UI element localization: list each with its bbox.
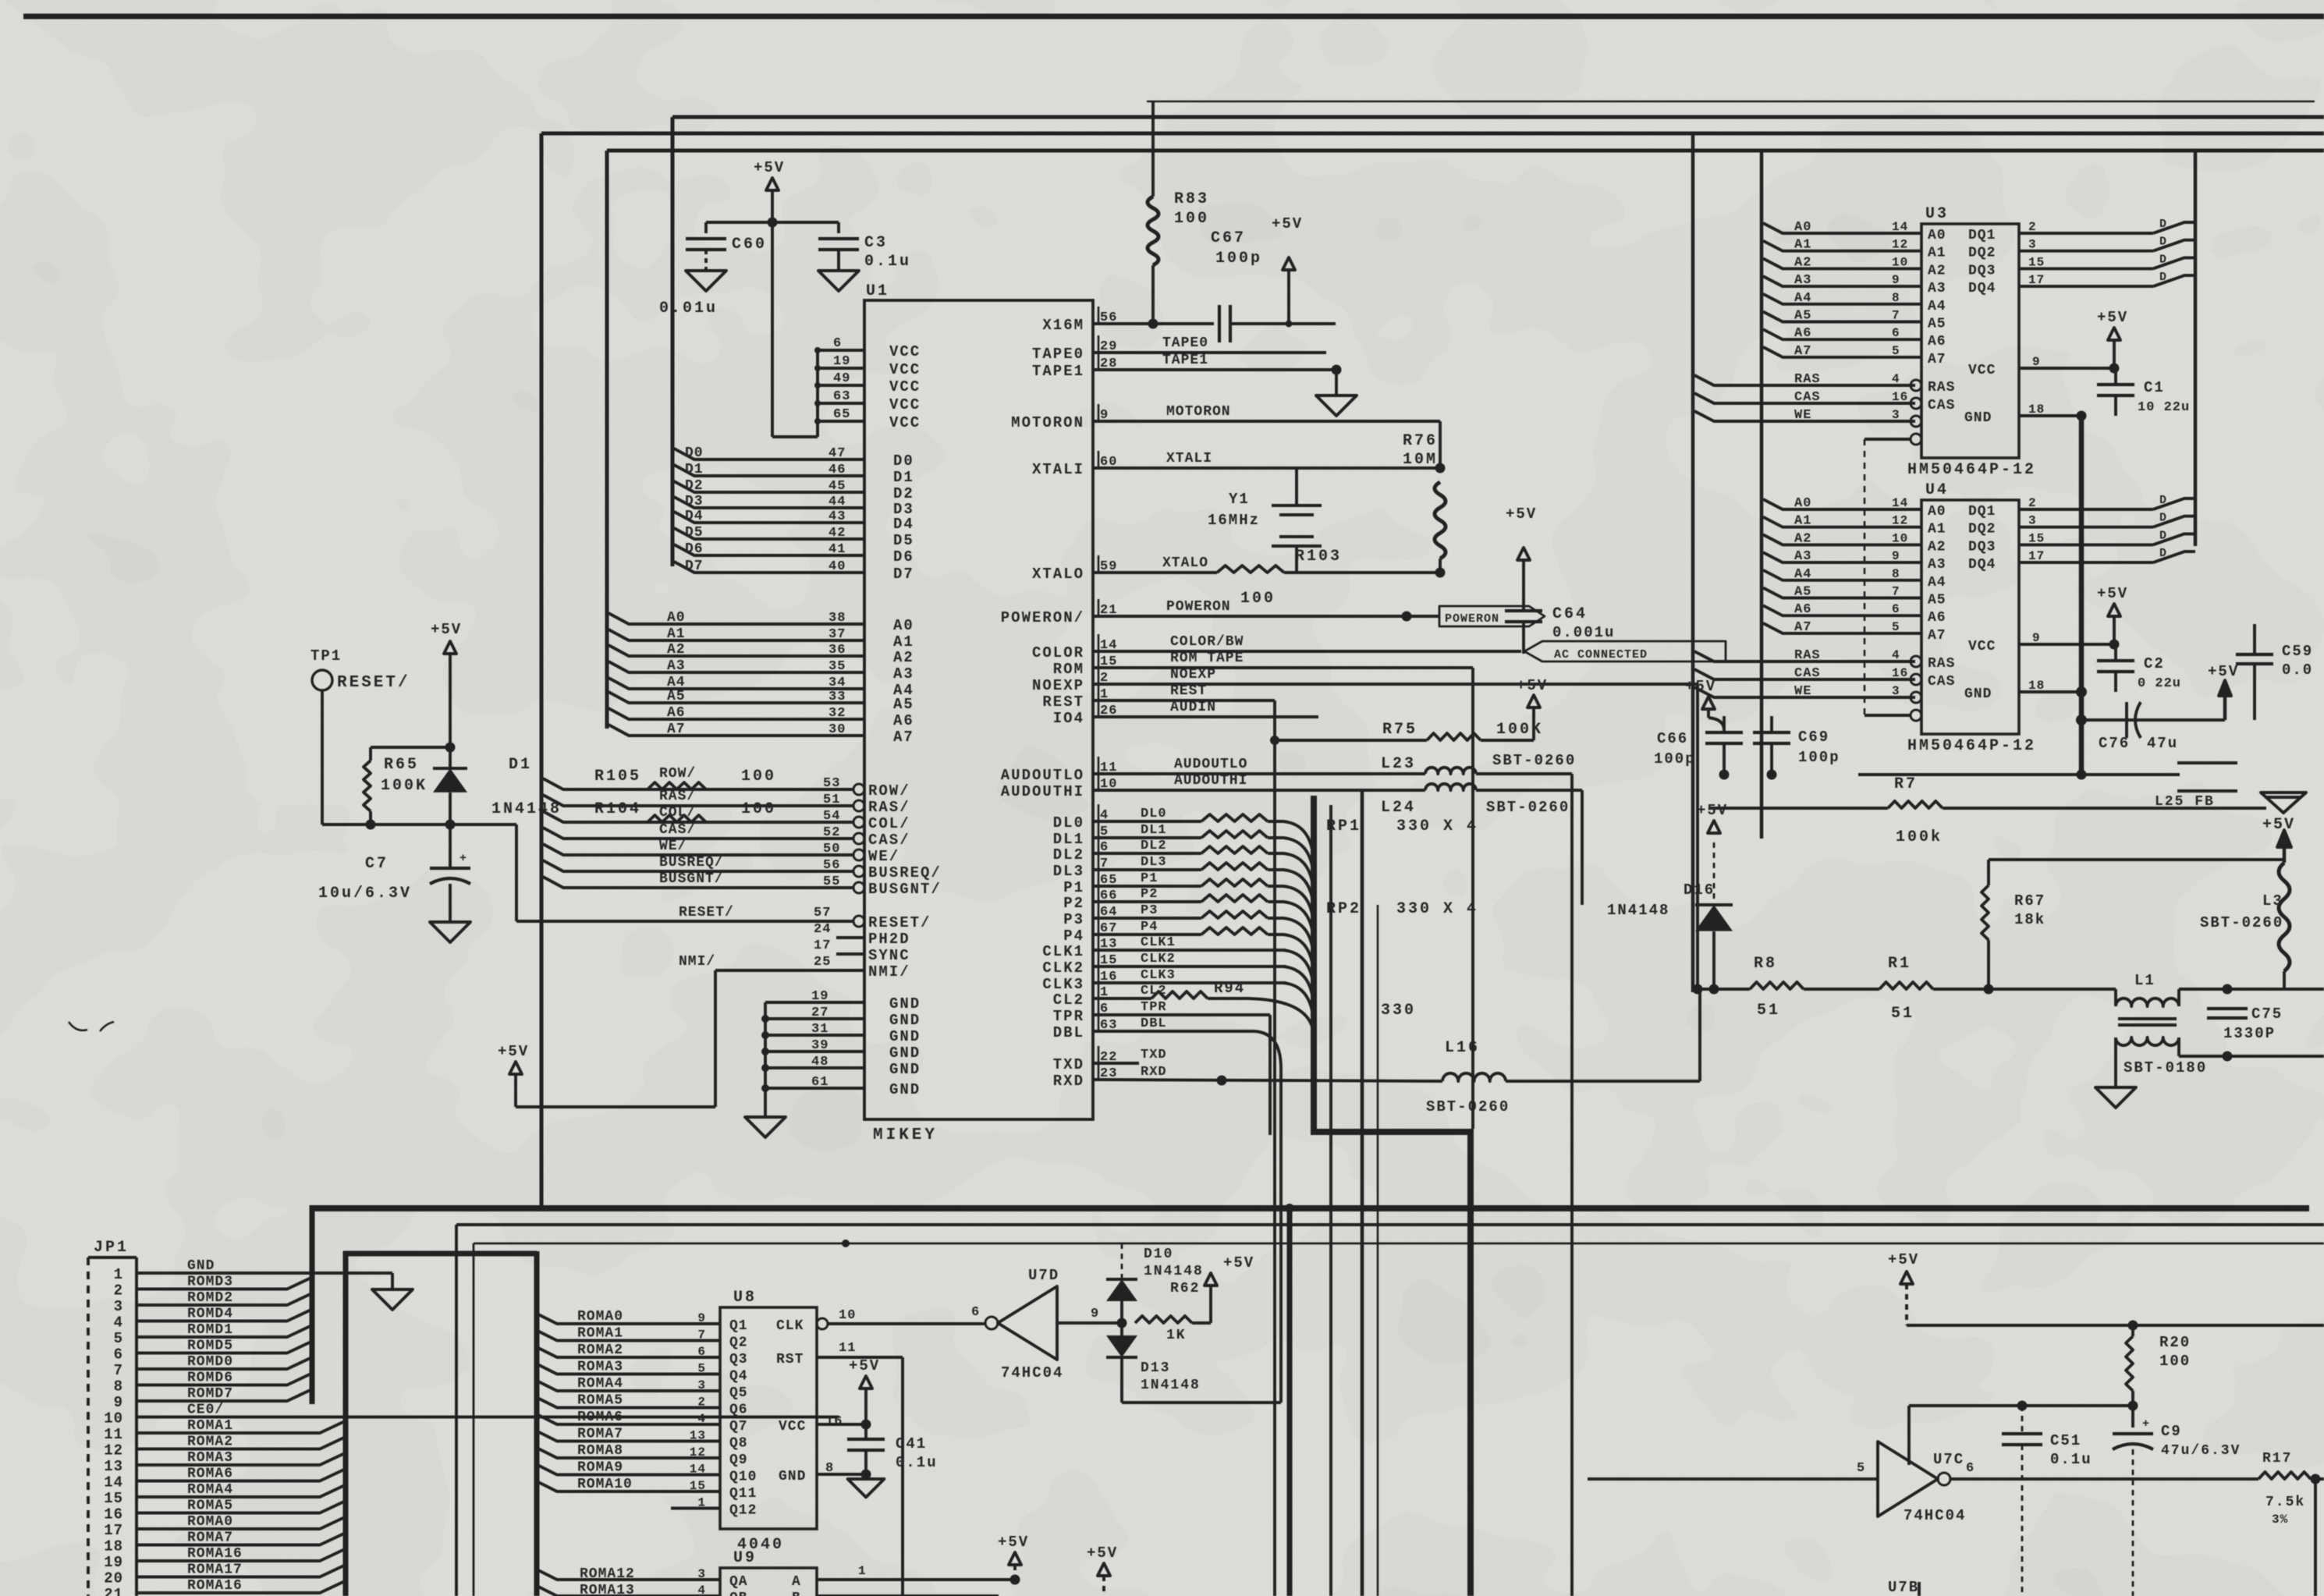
svg-text:COL/: COL/	[868, 815, 910, 832]
svg-text:11: 11	[104, 1426, 123, 1443]
resistor R104 100 on COL/	[648, 815, 706, 822]
svg-text:A2: A2	[893, 649, 914, 666]
svg-text:C64: C64	[1552, 605, 1588, 623]
svg-text:2: 2	[2028, 220, 2037, 234]
svg-text:VCC: VCC	[1968, 639, 1996, 654]
svg-text:12: 12	[1892, 514, 1908, 528]
svg-text:DQ3: DQ3	[1968, 263, 1996, 278]
svg-text:ROMA1: ROMA1	[187, 1418, 233, 1434]
svg-text:A2: A2	[1794, 531, 1811, 546]
svg-text:100: 100	[1174, 210, 1209, 228]
svg-text:7: 7	[114, 1362, 123, 1379]
svg-text:44: 44	[828, 495, 846, 509]
svg-text:GND: GND	[889, 1061, 921, 1078]
svg-text:A3: A3	[667, 658, 686, 674]
wire top bus thin	[1147, 101, 2315, 103]
svg-text:47u/6.3V: 47u/6.3V	[2161, 1443, 2241, 1459]
wire R17 down	[2314, 1479, 2317, 1596]
svg-text:51: 51	[1891, 1005, 1914, 1023]
svg-text:P1: P1	[1063, 879, 1084, 896]
svg-text:ROMA0: ROMA0	[577, 1309, 623, 1325]
svg-text:57: 57	[814, 906, 831, 920]
wire +5 feed down to VCC bracket	[771, 222, 774, 437]
svg-text:ROMA7: ROMA7	[577, 1427, 623, 1442]
svg-text:9: 9	[2032, 631, 2041, 645]
svg-text:MOTORON: MOTORON	[1011, 414, 1084, 431]
power +5V at C67	[1283, 257, 1295, 270]
svg-text:D0: D0	[685, 445, 704, 461]
gate U7C 74HC04 inverter	[1588, 1477, 1878, 1481]
svg-text:XTALO: XTALO	[1162, 555, 1208, 571]
svg-text:A2: A2	[667, 642, 686, 658]
svg-text:R103: R103	[1295, 548, 1342, 566]
svg-text:R65: R65	[384, 756, 419, 774]
svg-text:DQ1: DQ1	[1968, 228, 1996, 243]
svg-text:P3: P3	[1141, 903, 1158, 918]
svg-text:+5V: +5V	[2208, 663, 2239, 680]
svg-text:C2: C2	[2144, 655, 2165, 672]
svg-text:19: 19	[104, 1554, 123, 1571]
svg-text:56: 56	[823, 858, 840, 873]
svg-text:33: 33	[828, 690, 846, 704]
power +5V bottom right	[1900, 1271, 1913, 1284]
svg-text:15: 15	[104, 1490, 123, 1507]
svg-text:16: 16	[1892, 390, 1908, 404]
power +5V near C66	[1702, 697, 1715, 709]
svg-text:VCC: VCC	[1968, 363, 1996, 378]
svg-text:A5: A5	[893, 696, 914, 713]
svg-text:A5: A5	[1794, 309, 1811, 324]
svg-text:D6: D6	[685, 541, 704, 557]
svg-text:A4: A4	[667, 675, 686, 690]
svg-text:39: 39	[811, 1038, 828, 1053]
svg-text:43: 43	[828, 509, 846, 524]
capacitor C69 100p	[1753, 731, 1790, 734]
svg-text:SBT-0180: SBT-0180	[2124, 1059, 2207, 1076]
wire D13 bottom link	[1122, 1401, 1281, 1404]
svg-text:9: 9	[1892, 549, 1900, 563]
U4 G pin	[1865, 714, 1911, 717]
svg-text:U7D: U7D	[1028, 1267, 1059, 1284]
svg-text:ROMA6: ROMA6	[187, 1467, 233, 1482]
wire R65 top	[371, 746, 450, 749]
inductor L24 SBT-0260	[1425, 784, 1476, 790]
svg-text:6: 6	[1892, 326, 1900, 340]
svg-text:ROMD7: ROMD7	[187, 1386, 233, 1402]
svg-text:18k: 18k	[2014, 911, 2045, 928]
svg-text:GND: GND	[889, 1081, 921, 1098]
svg-text:Q5: Q5	[729, 1385, 748, 1401]
svg-text:+: +	[2142, 1417, 2149, 1431]
svg-text:AUDOUTLO: AUDOUTLO	[1001, 767, 1084, 784]
svg-text:DL0: DL0	[1053, 814, 1084, 832]
svg-text:NMI/: NMI/	[679, 954, 715, 970]
wire reset to RESET/ pin	[515, 825, 518, 921]
svg-text:A1: A1	[1794, 514, 1811, 529]
svg-text:CE0/: CE0/	[187, 1403, 224, 1418]
svg-text:XTALI: XTALI	[1032, 461, 1084, 478]
svg-text:3: 3	[2028, 238, 2037, 252]
svg-text:15: 15	[2028, 255, 2045, 269]
resistor R83 100 vertical	[1151, 101, 1155, 197]
resistor R75 100K pullup	[1275, 739, 1427, 742]
svg-text:C51: C51	[2050, 1432, 2081, 1449]
wire JP1 GND pin1	[160, 1271, 392, 1275]
wires JP1 ROMA fan to bus	[160, 1420, 346, 1433]
svg-text:6: 6	[1966, 1461, 1975, 1476]
wire TP1 down	[321, 690, 324, 825]
svg-text:45: 45	[828, 479, 846, 494]
svg-text:P4: P4	[1141, 920, 1158, 935]
resistor R67 18k vertical	[1987, 860, 1990, 885]
svg-text:0 22u: 0 22u	[2138, 676, 2181, 691]
svg-text:A4: A4	[1928, 575, 1946, 591]
svg-text:CL2: CL2	[1053, 991, 1084, 1009]
svg-text:+5V: +5V	[1272, 215, 1303, 232]
svg-text:U4: U4	[1925, 481, 1949, 499]
svg-text:17: 17	[2028, 273, 2045, 287]
svg-text:18: 18	[2028, 403, 2045, 417]
svg-text:D13: D13	[1141, 1360, 1170, 1376]
svg-text:Y1: Y1	[1229, 491, 1250, 508]
svg-text:A6: A6	[667, 705, 686, 721]
wire +5 bottom right rail	[1907, 1324, 2324, 1327]
svg-text:GND: GND	[889, 1012, 921, 1029]
svg-text:D: D	[2159, 253, 2167, 266]
resistor R105 100 on ROW/	[648, 782, 706, 789]
svg-text:D1: D1	[685, 462, 704, 477]
svg-text:RESET/: RESET/	[337, 674, 410, 692]
svg-text:A5: A5	[1928, 593, 1946, 608]
svg-text:NOEXP: NOEXP	[1032, 677, 1084, 694]
MIKEY DRAM control pins ROW/RAS/COL/CAS/WE/BUSREQ/BUSGNT	[543, 778, 853, 789]
U3 DQ pins	[2019, 232, 2153, 235]
svg-text:TXD: TXD	[1141, 1048, 1167, 1062]
svg-text:CLK2: CLK2	[1042, 959, 1084, 977]
capacitor C51 0.1u	[2021, 1406, 2024, 1434]
svg-text:IO4: IO4	[1053, 710, 1084, 727]
svg-text:DL1: DL1	[1053, 831, 1084, 848]
svg-text:CAS: CAS	[1794, 666, 1821, 681]
inductor L23 SBT-0260	[1425, 768, 1476, 774]
svg-text:10: 10	[1892, 255, 1908, 269]
svg-text:AUDOUTHI: AUDOUTHI	[1001, 783, 1084, 800]
svg-text:+5V: +5V	[2262, 816, 2295, 834]
svg-text:C60: C60	[732, 236, 767, 254]
svg-text:A0: A0	[1928, 504, 1946, 520]
svg-text:15: 15	[2028, 531, 2045, 545]
svg-text:1N4148: 1N4148	[1144, 1264, 1204, 1279]
svg-text:TAPE1: TAPE1	[1032, 363, 1084, 380]
svg-text:DQ4: DQ4	[1968, 281, 1996, 296]
svg-text:SBT-0260: SBT-0260	[1486, 799, 1570, 816]
resistor R81 51	[1750, 982, 1804, 989]
svg-text:RAS: RAS	[1928, 380, 1955, 395]
resistor R65 100K	[369, 747, 372, 761]
svg-text:A1: A1	[667, 626, 686, 642]
svg-text:C41: C41	[896, 1435, 927, 1452]
svg-text:10u/6.3V: 10u/6.3V	[318, 885, 412, 903]
wire G dashed link U3-U4	[1864, 439, 1866, 715]
svg-text:CLK3: CLK3	[1141, 968, 1176, 983]
svg-text:A6: A6	[1928, 334, 1946, 349]
svg-text:D5: D5	[685, 525, 704, 541]
svg-text:20: 20	[104, 1570, 123, 1587]
capacitor C76 47u polarized	[2125, 702, 2128, 738]
svg-text:TAPE0: TAPE0	[1032, 346, 1084, 363]
MIKEY RESET/ pin	[516, 920, 853, 923]
svg-text:CAS: CAS	[1928, 398, 1955, 413]
svg-text:RESET/: RESET/	[679, 905, 734, 920]
IC U9 body (partial)	[720, 1568, 817, 1596]
svg-text:1N4148: 1N4148	[1141, 1378, 1201, 1393]
power +5V U8	[860, 1376, 872, 1389]
svg-text:9: 9	[114, 1394, 123, 1411]
svg-text:ROM TAPE: ROM TAPE	[1170, 651, 1244, 666]
svg-text:D4: D4	[685, 509, 704, 524]
svg-text:0.001u: 0.001u	[1552, 624, 1615, 641]
svg-text:SYNC: SYNC	[868, 947, 910, 964]
connector JP1 body	[87, 1257, 90, 1596]
svg-text:9: 9	[1091, 1307, 1099, 1321]
svg-text:38: 38	[828, 611, 846, 626]
svg-text:DBL: DBL	[1141, 1016, 1167, 1031]
resistor R17 7.5k	[2258, 1472, 2311, 1479]
svg-text:D: D	[2159, 512, 2167, 525]
svg-text:40: 40	[828, 559, 846, 574]
svg-text:L16: L16	[1445, 1039, 1480, 1057]
wire thick U8 feed bus vertical	[534, 1251, 540, 1596]
svg-text:+5V: +5V	[1517, 677, 1548, 694]
svg-text:16: 16	[825, 1414, 843, 1429]
svg-text:Q7: Q7	[729, 1419, 748, 1435]
svg-text:50: 50	[823, 842, 840, 857]
wire DRAM bus vertical x2258	[1760, 151, 1764, 839]
svg-text:ROMA0: ROMA0	[187, 1514, 233, 1530]
svg-text:SBT-0260: SBT-0260	[1426, 1098, 1510, 1115]
U4 RAS/CAS/W pins	[1694, 651, 1915, 661]
svg-text:ROMA9: ROMA9	[577, 1460, 623, 1476]
inductor L3 SBT-0260 vertical	[2279, 863, 2290, 971]
crystal Y1 16MHz	[1295, 468, 1298, 505]
wire thick ROMD bus	[310, 1205, 315, 1404]
svg-text:4: 4	[1892, 372, 1900, 386]
svg-text:VCC: VCC	[779, 1419, 806, 1435]
svg-text:19: 19	[833, 354, 850, 369]
svg-text:3: 3	[1892, 408, 1900, 422]
svg-text:R7: R7	[1894, 775, 1918, 793]
diode D1 1N4148	[433, 767, 467, 770]
capacitor C60	[704, 222, 708, 233]
svg-text:L1: L1	[2134, 972, 2155, 989]
svg-text:Q1: Q1	[729, 1318, 748, 1334]
svg-text:GND: GND	[889, 1028, 921, 1045]
svg-text:P2: P2	[1063, 895, 1084, 912]
U3 address pins A0-A7	[1763, 223, 1921, 233]
svg-text:ROMA16: ROMA16	[187, 1546, 243, 1562]
svg-text:10: 10	[104, 1410, 123, 1428]
svg-text:+5V: +5V	[1685, 678, 1716, 695]
svg-text:R75: R75	[1382, 721, 1417, 739]
svg-text:C7: C7	[365, 855, 389, 873]
svg-text:BUSREQ/: BUSREQ/	[659, 855, 724, 871]
power +5V U4	[2108, 604, 2120, 616]
svg-text:AUDIN: AUDIN	[1170, 700, 1216, 715]
svg-text:0.0: 0.0	[2282, 661, 2313, 679]
svg-text:RST: RST	[776, 1352, 804, 1367]
svg-text:Q12: Q12	[729, 1503, 757, 1519]
svg-text:A2: A2	[1928, 539, 1946, 555]
svg-text:330 X 4: 330 X 4	[1396, 900, 1478, 918]
svg-text:GND: GND	[779, 1469, 806, 1484]
svg-text:Q10: Q10	[729, 1470, 757, 1485]
svg-text:30: 30	[828, 722, 846, 737]
svg-text:ROMA13: ROMA13	[580, 1583, 635, 1596]
capacitor C7 10u/6.3V polarized	[430, 867, 470, 870]
svg-text:A3: A3	[1794, 273, 1811, 288]
svg-text:330: 330	[1381, 1002, 1416, 1020]
svg-text:DL3: DL3	[1141, 855, 1167, 870]
svg-text:CLK2: CLK2	[1141, 952, 1176, 966]
svg-text:POWERON/: POWERON/	[1001, 609, 1084, 626]
ground TAPE1	[1335, 370, 1338, 394]
svg-text:+5V: +5V	[1223, 1254, 1254, 1271]
svg-text:WE: WE	[1794, 408, 1811, 423]
wire REST vertical	[1273, 700, 1276, 1596]
svg-text:0.1u: 0.1u	[896, 1454, 938, 1471]
svg-text:ROMA2: ROMA2	[577, 1342, 623, 1358]
svg-text:16MHz: 16MHz	[1208, 512, 1260, 529]
gate U7D 74HC04 inverter	[998, 1286, 1057, 1360]
svg-text:U7C: U7C	[1933, 1451, 1964, 1468]
svg-text:RXD: RXD	[1053, 1073, 1084, 1090]
diode D13 1N4148 down	[1120, 1323, 1123, 1335]
svg-text:A6: A6	[1794, 326, 1811, 341]
svg-text:17: 17	[814, 938, 831, 953]
resistor R76 10M vertical	[1435, 482, 1446, 559]
wire C51/C9 rail	[1909, 1404, 2133, 1407]
wire bottom bus 2	[456, 1223, 2324, 1226]
svg-text:3: 3	[1892, 684, 1900, 698]
svg-text:D3: D3	[685, 494, 704, 509]
wire thick bus elbow	[343, 1251, 537, 1257]
svg-text:RXD: RXD	[1141, 1065, 1167, 1080]
svg-text:100: 100	[741, 768, 776, 786]
svg-text:C75: C75	[2251, 1005, 2283, 1023]
svg-text:JP1: JP1	[94, 1239, 129, 1257]
wire top bus B	[541, 132, 2324, 136]
svg-text:C69: C69	[1798, 729, 1829, 746]
svg-text:5: 5	[1892, 620, 1900, 634]
svg-text:100: 100	[2159, 1353, 2191, 1370]
wire left vertical bus x694	[540, 133, 544, 1206]
svg-text:R67: R67	[2014, 892, 2045, 910]
resistor R62 1K	[1135, 1316, 1192, 1323]
svg-text:ROMA3: ROMA3	[187, 1450, 233, 1466]
svg-text:A3: A3	[1928, 281, 1946, 296]
svg-text:7: 7	[1892, 585, 1900, 599]
svg-text:D5: D5	[893, 532, 914, 549]
svg-text:CLK3: CLK3	[1042, 976, 1084, 993]
svg-text:RAS/: RAS/	[868, 799, 910, 816]
svg-text:C67: C67	[1211, 229, 1246, 247]
svg-text:6: 6	[833, 336, 842, 351]
svg-text:21: 21	[104, 1586, 123, 1596]
wire JP1 CE0/	[160, 1416, 839, 1419]
wire DRAM bus vertical x2170	[1691, 133, 1695, 992]
svg-text:R76: R76	[1403, 432, 1438, 450]
svg-text:VCC: VCC	[889, 343, 921, 360]
svg-text:D1: D1	[893, 469, 914, 486]
svg-text:X16M: X16M	[1042, 317, 1084, 334]
svg-text:3%: 3%	[2272, 1513, 2288, 1527]
svg-text:BUSREQ/: BUSREQ/	[868, 864, 942, 881]
svg-text:VCC: VCC	[889, 396, 921, 413]
svg-text:ROW/: ROW/	[868, 782, 910, 800]
wire top bus C	[607, 149, 2324, 153]
svg-text:C9: C9	[2161, 1423, 2182, 1440]
svg-text:U7B: U7B	[1888, 1579, 1919, 1596]
svg-text:100: 100	[1240, 590, 1276, 608]
svg-text:ROMA5: ROMA5	[577, 1393, 623, 1409]
svg-text:A1: A1	[1928, 522, 1946, 537]
svg-text:D: D	[2159, 529, 2167, 542]
diode D10 1N4148 up	[1121, 1243, 1123, 1279]
svg-text:53: 53	[823, 776, 840, 791]
svg-text:SBT-0260: SBT-0260	[2200, 914, 2283, 931]
svg-text:P4: P4	[1063, 927, 1084, 945]
svg-text:TAPE1: TAPE1	[1162, 353, 1208, 368]
svg-text:5: 5	[1857, 1461, 1865, 1476]
svg-text:DL3: DL3	[1053, 863, 1084, 880]
U3 G pin	[1865, 438, 1911, 441]
svg-text:A5: A5	[1794, 585, 1811, 600]
wire mid verticals	[1329, 805, 1332, 1596]
wire thick DL bus vertical	[1311, 796, 1317, 1132]
svg-text:AUDOUTLO: AUDOUTLO	[1174, 757, 1247, 772]
svg-text:24: 24	[814, 922, 831, 937]
svg-text:L3: L3	[2262, 892, 2283, 910]
svg-text:47u: 47u	[2147, 735, 2178, 752]
svg-text:DL2: DL2	[1141, 839, 1167, 853]
svg-text:ROMA10: ROMA10	[577, 1477, 633, 1492]
capacitor C75 1330P	[2207, 1007, 2248, 1010]
svg-text:ROW/: ROW/	[659, 766, 696, 782]
svg-text:L24: L24	[1381, 799, 1416, 817]
IC U1 MIKEY body	[864, 300, 1093, 1119]
svg-text:+5V: +5V	[1506, 505, 1537, 523]
IC U3 HM50464P-12 body	[1921, 224, 2019, 458]
svg-text:D7: D7	[685, 559, 704, 574]
wire L1 secondary left to ground	[2114, 1037, 2117, 1086]
svg-text:A6: A6	[1794, 602, 1811, 617]
svg-text:10: 10	[839, 1308, 856, 1323]
svg-text:330 X 4: 330 X 4	[1396, 818, 1478, 835]
svg-text:16: 16	[1892, 666, 1908, 680]
wire C76 branch	[2081, 718, 2208, 722]
svg-text:ROMA1: ROMA1	[577, 1326, 623, 1342]
svg-text:ROMA4: ROMA4	[187, 1482, 233, 1498]
svg-text:12: 12	[1892, 238, 1908, 252]
svg-text:GND: GND	[889, 995, 921, 1013]
svg-text:D: D	[2159, 218, 2167, 231]
svg-text:L23: L23	[1381, 755, 1416, 773]
svg-text:100K: 100K	[1496, 721, 1543, 739]
svg-text:Q6: Q6	[729, 1403, 748, 1418]
svg-text:ROMD0: ROMD0	[187, 1354, 233, 1370]
svg-text:R62: R62	[1170, 1281, 1200, 1296]
svg-text:ROMA3: ROMA3	[577, 1360, 623, 1375]
